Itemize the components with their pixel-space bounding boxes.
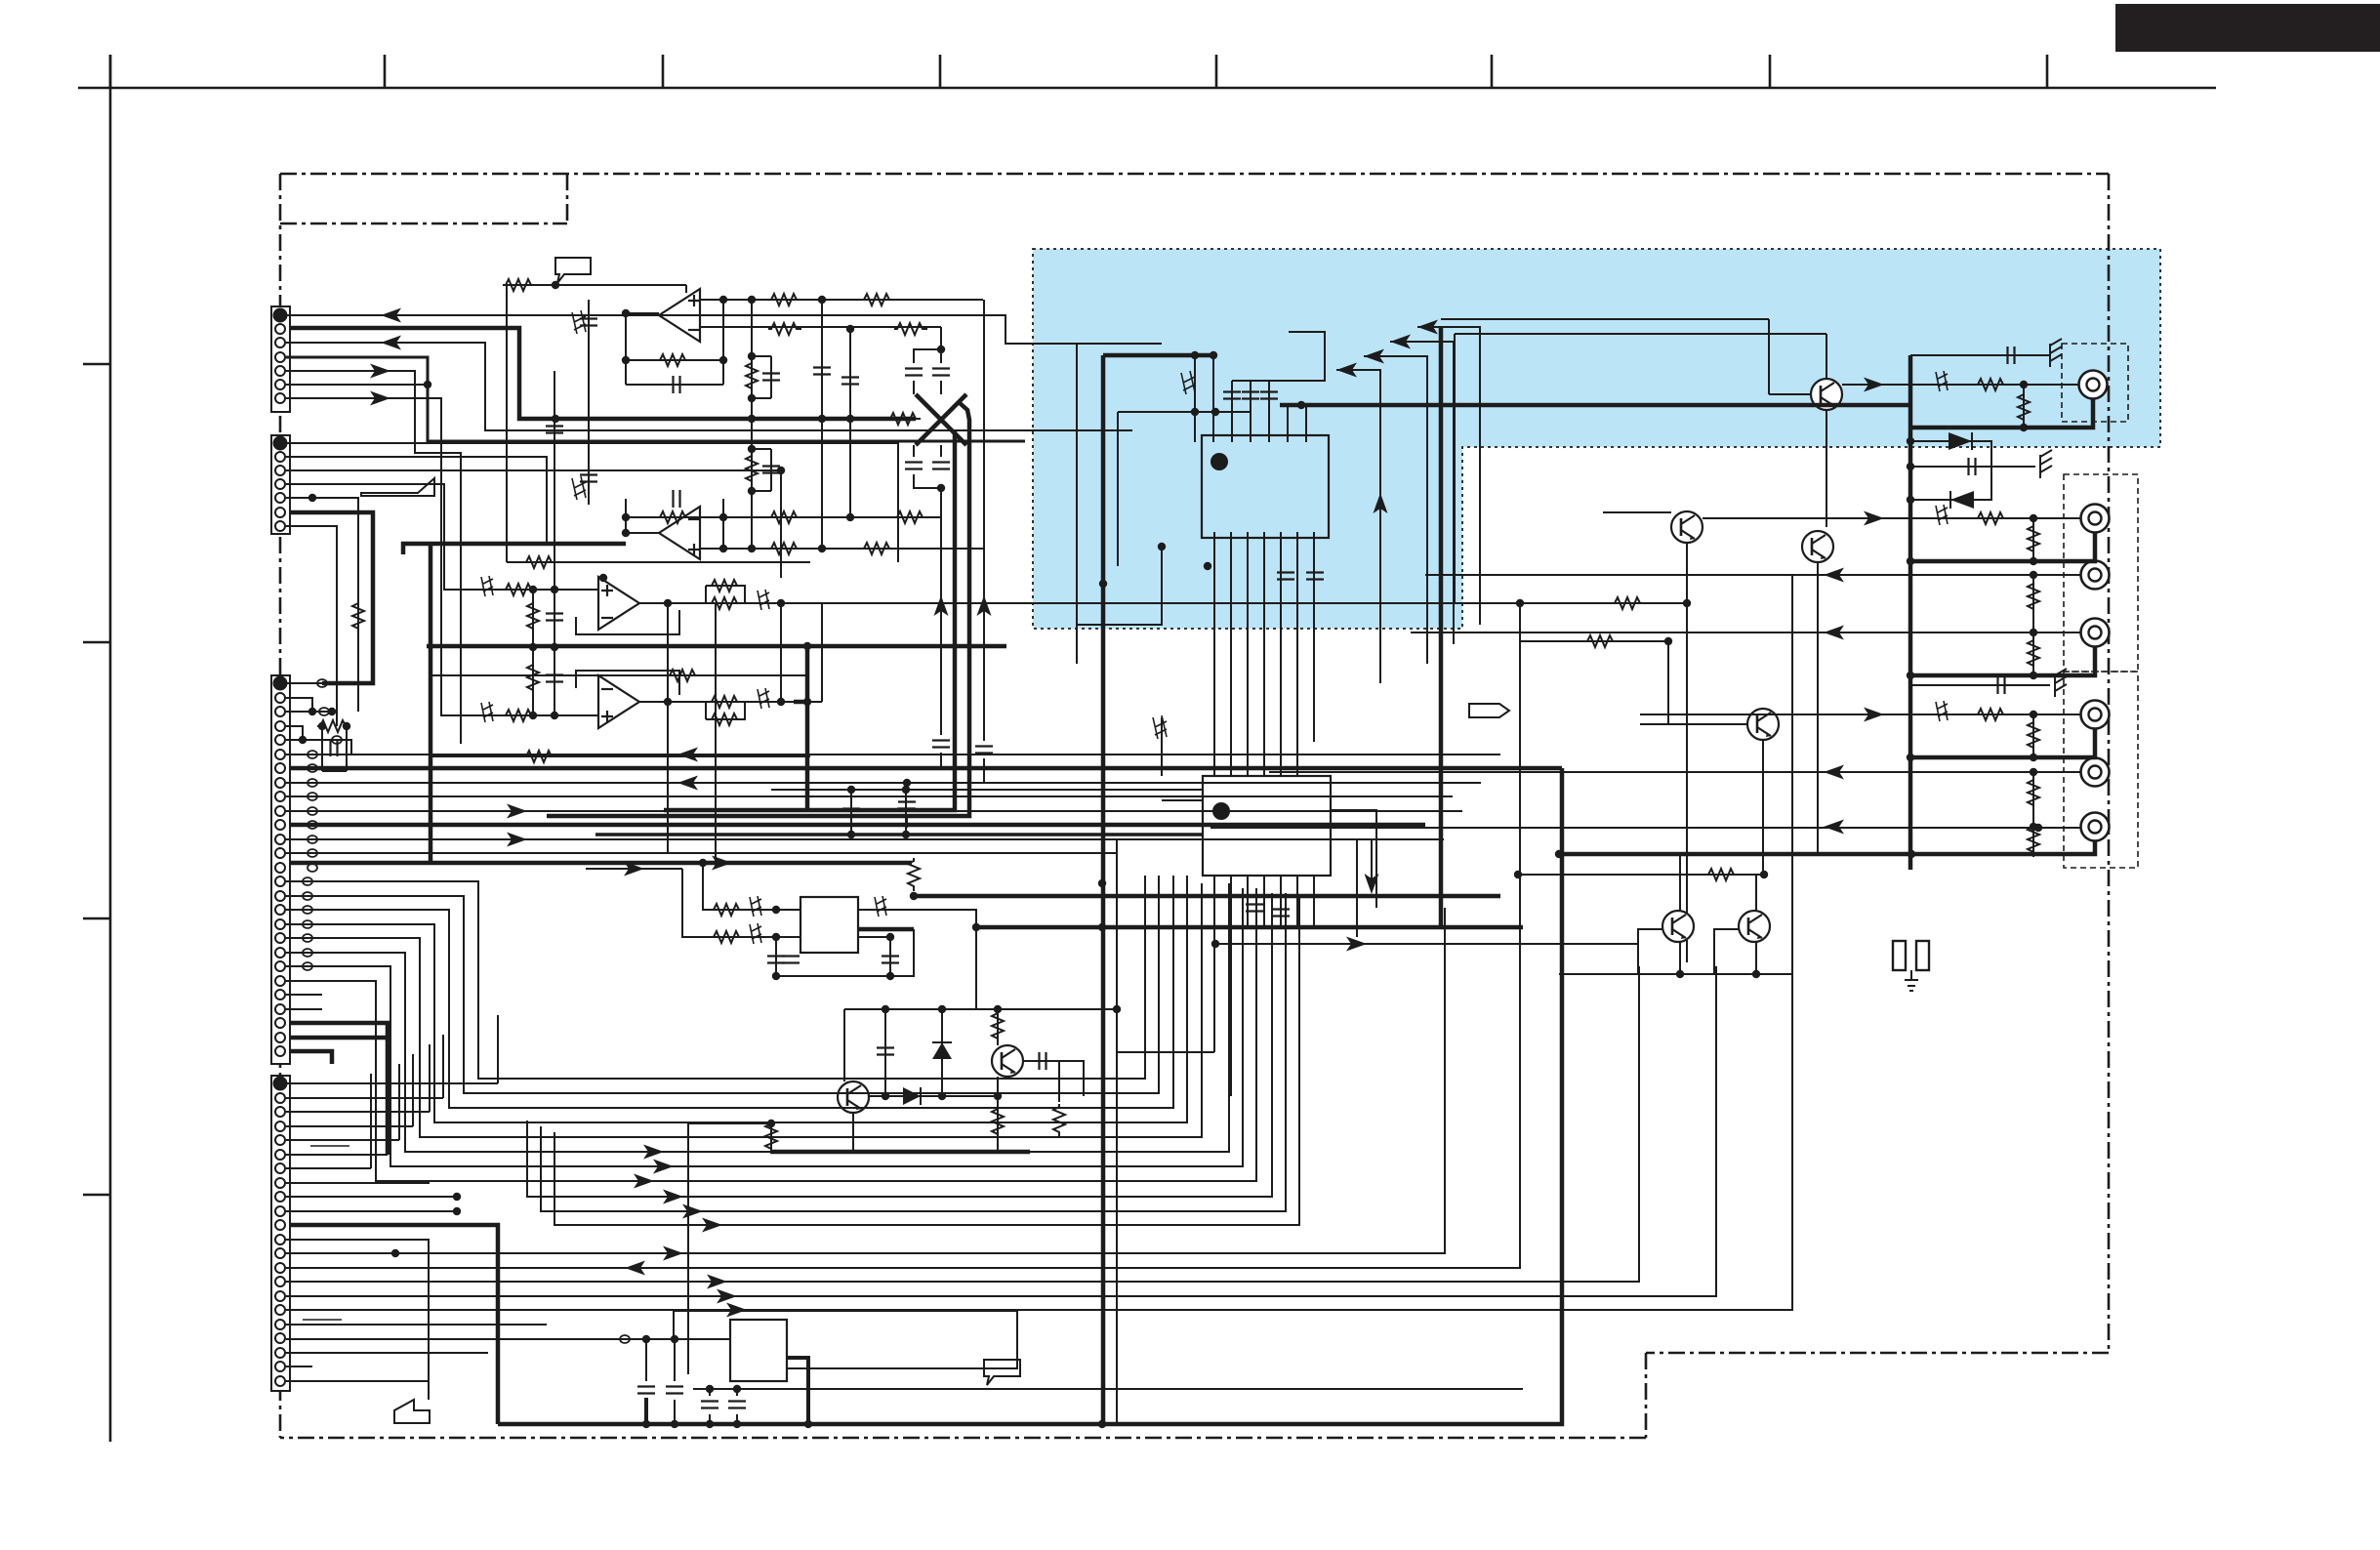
wire	[2055, 669, 2067, 697]
junction	[1676, 970, 1684, 978]
junction	[846, 513, 854, 521]
wire	[1313, 876, 1315, 927]
wire	[286, 1252, 395, 1254]
resistor R32	[2028, 824, 2039, 857]
wire	[286, 1082, 498, 1084]
junction	[994, 1092, 1002, 1100]
RCA jack J3	[2081, 561, 2110, 590]
resistor on CN2 branch	[352, 600, 364, 633]
junction	[2030, 629, 2037, 636]
junction	[902, 831, 910, 838]
junction	[551, 712, 558, 719]
connector pin	[275, 1018, 285, 1028]
resistor R17	[709, 597, 742, 609]
wire oa3 +in	[483, 589, 598, 591]
wire	[1679, 942, 1681, 974]
wire	[286, 896, 752, 1093]
wire	[1331, 839, 1357, 937]
wire	[1305, 405, 1307, 442]
wire	[674, 1339, 676, 1381]
junction	[719, 513, 727, 521]
connector pin	[275, 1248, 285, 1258]
wire	[286, 682, 363, 684]
junction	[1098, 923, 1106, 931]
junction	[818, 545, 826, 552]
resistor R4	[894, 323, 927, 335]
wire	[940, 445, 942, 457]
wire	[1247, 532, 1249, 776]
wire thick: conn pin2 to X	[290, 328, 916, 419]
capacitor C10	[841, 378, 859, 385]
junction	[2030, 514, 2037, 522]
wire thick vertical right bus	[1908, 355, 1913, 870]
signal arrow	[625, 1261, 645, 1276]
wire	[852, 1113, 854, 1152]
double gnd symbol	[1893, 941, 1906, 970]
op-amp U3	[598, 675, 639, 728]
ferrite bead	[303, 892, 312, 900]
resistor R9	[657, 511, 690, 523]
junction	[1297, 401, 1305, 409]
wire jack3 row	[1425, 574, 2080, 576]
flag symbol note2	[361, 478, 434, 496]
wire	[286, 726, 303, 740]
opamps	[659, 289, 700, 342]
wire jack1 row	[1842, 384, 2078, 386]
capacitor C26	[877, 1048, 894, 1055]
connector pin	[275, 508, 285, 517]
wire	[770, 356, 772, 398]
row arrows	[1864, 378, 1884, 392]
connector pin	[275, 1122, 285, 1131]
junction	[2020, 424, 2028, 431]
connector pin	[275, 848, 285, 858]
resistor R6	[887, 413, 921, 425]
caps near IC2	[1246, 905, 1263, 912]
wire	[1603, 511, 1671, 513]
wire long lines from CN3 staircase to right	[761, 876, 1145, 1079]
junction	[1907, 463, 1914, 470]
junction	[671, 1420, 678, 1428]
connector pin	[275, 933, 285, 943]
wire	[1559, 840, 2095, 854]
junction	[529, 643, 537, 651]
wire	[715, 603, 717, 868]
diode up	[932, 1042, 952, 1059]
capacitor C4	[932, 463, 950, 469]
resistor R39	[992, 1106, 1004, 1139]
wire	[561, 576, 1792, 1310]
wire	[286, 966, 644, 1166]
junction	[551, 643, 558, 651]
connector pin	[275, 1135, 285, 1145]
wire	[1640, 723, 1747, 725]
wire	[286, 1366, 312, 1367]
wire	[290, 1051, 332, 1064]
signal arrow	[1346, 937, 1367, 952]
capacitor C5	[932, 741, 950, 748]
wire	[940, 381, 942, 394]
wire	[770, 1123, 772, 1152]
wire	[1950, 491, 1974, 509]
wires CN4	[286, 1015, 610, 1400]
resistor R16	[709, 580, 742, 591]
wire thick X hook right outer	[547, 402, 969, 816]
wire jack5 row	[1640, 714, 2080, 715]
resistor R30	[2028, 719, 2039, 753]
RCA jack J7	[2081, 813, 2110, 841]
connector pin	[275, 521, 285, 531]
wire	[2032, 575, 2034, 675]
wire	[586, 868, 682, 870]
caps and grounds	[2008, 347, 2015, 364]
wire	[932, 1041, 952, 1043]
wire	[2032, 632, 2034, 675]
connector pin	[275, 763, 285, 773]
junction	[299, 736, 307, 744]
junction	[1191, 408, 1199, 416]
signal arrow	[1824, 765, 1844, 780]
wire	[742, 876, 1173, 1108]
wire	[1817, 562, 1819, 854]
capacitor C18	[331, 739, 338, 756]
wire	[916, 394, 966, 445]
wire	[1768, 319, 1770, 394]
op-amp U2	[598, 577, 639, 630]
wire sense vertical 2	[983, 300, 985, 741]
resistor R15	[503, 710, 536, 721]
wire	[286, 1267, 517, 1269]
junction	[1907, 496, 1914, 504]
RCA jack J2	[2081, 505, 2110, 533]
capacitor C7	[898, 802, 916, 809]
junction	[1907, 672, 1914, 679]
wire	[286, 711, 332, 713]
speech bubble note	[555, 258, 591, 283]
connector pin	[274, 437, 287, 450]
junction	[453, 1207, 461, 1215]
connector pin	[275, 1305, 285, 1315]
resistor R8	[894, 511, 927, 523]
wire oa3 out	[639, 602, 1687, 604]
wire	[906, 818, 908, 828]
thick right vertical to bottom	[1560, 768, 1565, 1404]
wire	[290, 766, 1562, 771]
junction	[902, 786, 910, 794]
wire thick returns to jacks	[1910, 532, 2095, 561]
junction	[308, 494, 316, 502]
hatch symbol tp1	[572, 310, 586, 334]
resistor R28	[2028, 581, 2039, 614]
wire thick X cross	[916, 394, 966, 445]
junction	[2030, 768, 2037, 776]
wire	[821, 603, 823, 702]
junction	[1191, 351, 1199, 359]
junction	[622, 356, 630, 364]
connector pin	[275, 1192, 285, 1202]
junction	[2030, 557, 2037, 565]
top ticks	[109, 55, 112, 88]
wire thick bottom rail	[290, 1225, 498, 1424]
connector pin	[275, 452, 285, 462]
wire	[644, 1398, 648, 1424]
connector pin	[275, 1263, 285, 1273]
signal arrow	[1364, 349, 1384, 364]
wire	[667, 603, 669, 853]
wire arrows bundle mid	[527, 893, 1272, 1197]
junction	[706, 1420, 714, 1428]
wire	[1755, 942, 1757, 974]
connector CN1 pins	[274, 309, 287, 404]
connector pin	[275, 1235, 285, 1244]
connector pin	[275, 948, 285, 958]
wire loop over reg	[674, 1311, 1017, 1368]
wires CN2	[286, 443, 898, 726]
resistor R35	[1705, 869, 1739, 880]
wire	[1336, 370, 1380, 683]
wire	[1117, 838, 1203, 840]
junction	[642, 1335, 650, 1343]
wire	[625, 313, 627, 385]
wires above regulator rows	[771, 790, 1203, 835]
wire	[914, 349, 941, 363]
wire	[1023, 1061, 1084, 1096]
wire IC1 left vert	[1117, 412, 1119, 566]
wire	[506, 285, 508, 562]
wire	[1390, 342, 1454, 644]
signal arrow	[1864, 511, 1884, 526]
wire	[674, 1400, 676, 1424]
connector pin	[275, 1004, 285, 1014]
jack group outline	[2064, 672, 2138, 868]
junction	[748, 445, 756, 453]
wire	[1118, 411, 1250, 413]
junction	[748, 545, 756, 552]
signal arrow	[370, 364, 390, 379]
junction	[882, 1092, 889, 1100]
wire	[1230, 532, 1232, 776]
wire caps left pair	[645, 1339, 647, 1381]
connector pin	[275, 735, 285, 745]
wire lower resistor	[997, 1077, 999, 1152]
connector pin	[275, 877, 285, 886]
wire	[1230, 876, 1232, 1096]
wire	[286, 398, 483, 715]
resistor R38	[1053, 1104, 1065, 1137]
signal arrow	[1824, 568, 1844, 583]
wire res branch to Q	[997, 1009, 999, 1045]
transistor Q5	[1739, 911, 1770, 942]
junction	[453, 1193, 461, 1201]
signal arrow	[702, 1218, 722, 1233]
junction	[846, 325, 854, 333]
CN3 mid pins staircase	[286, 881, 761, 1181]
wire	[2032, 772, 2034, 854]
junction	[642, 1420, 650, 1428]
wire	[286, 910, 742, 1108]
hatch symbol ic2	[1153, 715, 1167, 739]
junction	[767, 1120, 775, 1127]
ferrite bead	[303, 877, 312, 885]
connector pin	[275, 1362, 285, 1371]
wire	[286, 443, 898, 562]
wire sense vertical 1	[940, 488, 942, 735]
wire thick mid bus y662	[427, 644, 1006, 649]
wire cap columns	[821, 300, 823, 426]
connector pin	[275, 1206, 285, 1216]
wire	[555, 258, 591, 283]
ferrite bead	[332, 736, 342, 744]
junction	[804, 1420, 812, 1428]
wire	[625, 499, 627, 533]
junction	[777, 698, 785, 706]
wire	[554, 371, 555, 590]
wire	[481, 702, 493, 722]
wire oa4 out	[639, 701, 822, 703]
wire	[286, 881, 761, 1079]
wire	[286, 1111, 430, 1113]
wire	[1638, 929, 1662, 974]
wire	[1287, 405, 1289, 442]
junction	[847, 831, 855, 838]
wire	[286, 994, 322, 996]
RCA jack J6	[2081, 758, 2110, 787]
wire	[625, 888, 1256, 1181]
connector pin	[275, 721, 285, 731]
dots on rows	[2020, 381, 2028, 388]
wire IC1 feed horizontals	[1232, 332, 1325, 381]
wire opamp1 -in	[700, 326, 941, 328]
transistor Q4	[1662, 911, 1694, 942]
junction	[886, 972, 894, 980]
ferrite bead	[303, 934, 312, 942]
junction	[2030, 823, 2037, 831]
wire discrete top rail	[844, 1008, 1117, 1010]
wire	[1247, 876, 1249, 927]
junction	[2034, 824, 2042, 832]
wire	[429, 544, 433, 863]
caps on IC1 top pins	[1223, 392, 1241, 399]
wire	[770, 449, 772, 491]
signal arrow	[712, 856, 732, 871]
resistor R20	[523, 751, 556, 762]
resistor R37	[908, 858, 920, 891]
connector pin	[275, 324, 285, 334]
wire	[1559, 973, 1791, 975]
resistor R40	[765, 1121, 777, 1154]
arrow up bus2	[977, 595, 992, 616]
junction	[1158, 543, 1166, 551]
junction	[706, 1385, 714, 1393]
wire	[286, 1295, 547, 1297]
junction	[733, 1420, 741, 1428]
RCA jack J4	[2081, 619, 2110, 647]
junction	[903, 779, 911, 787]
ferrite bead	[620, 1335, 630, 1343]
wire	[771, 789, 1203, 791]
resistors area A2	[503, 584, 536, 595]
connector pin	[275, 1033, 285, 1042]
wire	[286, 357, 1025, 441]
resistor R19	[709, 696, 742, 708]
wire	[752, 490, 771, 492]
wire	[722, 300, 724, 385]
transistor Q2	[1671, 511, 1703, 543]
connector pin	[275, 990, 285, 999]
transistors	[1811, 379, 1842, 410]
connector CN2 pins	[274, 437, 287, 532]
resistor R21	[667, 670, 700, 681]
wire	[1441, 318, 1769, 320]
junction	[972, 923, 980, 931]
resistor cap cluster right of CN3 top	[322, 726, 347, 771]
title block	[2115, 4, 2380, 52]
capacitor C16	[546, 614, 563, 621]
wire thick to right	[914, 892, 1500, 896]
wire oa4 -in	[483, 714, 598, 716]
connector pin	[275, 466, 285, 475]
capacitor C1	[905, 369, 923, 376]
wire	[1212, 355, 1214, 442]
junction	[424, 381, 431, 388]
junction	[2030, 711, 2037, 718]
junction	[1683, 599, 1691, 607]
wire	[286, 1125, 413, 1127]
wire	[532, 647, 534, 715]
junction	[308, 708, 316, 715]
wire	[849, 426, 851, 517]
resistor R18	[709, 714, 742, 725]
wire	[1910, 646, 2095, 675]
wire	[787, 1358, 808, 1424]
junction	[910, 892, 918, 900]
jack group outline	[2062, 344, 2128, 422]
wire	[1364, 356, 1427, 664]
resistor R36	[992, 1010, 1004, 1043]
wire	[1769, 393, 1811, 395]
wire thick right bus in blue	[1280, 403, 1910, 408]
pin-1 mark	[1211, 453, 1228, 470]
connector strips	[271, 306, 290, 1391]
junction	[847, 786, 855, 794]
wire from IC1 left bottom	[1077, 547, 1162, 625]
junction	[1211, 940, 1219, 948]
wire	[1755, 875, 1757, 911]
polarized cap syms	[481, 576, 493, 596]
long bus lines from CN3	[286, 755, 1500, 853]
capacitor C30	[882, 957, 899, 963]
resistor R34	[1584, 635, 1618, 647]
wire	[858, 936, 890, 938]
reg dots	[699, 859, 707, 867]
junction	[328, 708, 336, 715]
wire bottom rail of block	[507, 561, 810, 563]
resistor R27	[2028, 523, 2039, 556]
wire	[279, 174, 282, 1438]
wire	[889, 940, 891, 976]
resistor R33	[1612, 597, 1645, 609]
resistor R13	[746, 360, 758, 393]
wire	[286, 1154, 388, 1156]
wire diode cluster	[1910, 441, 1991, 500]
ferrite bead	[317, 679, 327, 687]
connector pin	[275, 380, 285, 389]
row resistors & symbols	[1975, 379, 2008, 390]
wire	[280, 173, 2109, 176]
signal arrow	[507, 804, 527, 819]
ferrite bead	[303, 906, 312, 914]
junction	[1760, 871, 1768, 878]
